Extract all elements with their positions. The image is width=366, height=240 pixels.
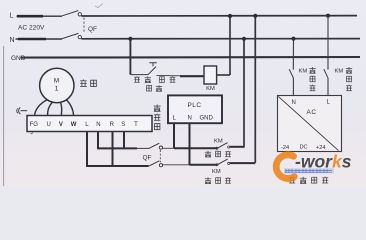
- motor M1 circle: [40, 68, 74, 102]
- svg-text:QF: QF: [88, 26, 97, 33]
- module diagonal: [278, 96, 338, 150]
- wire KM upper feed: [174, 147, 217, 149]
- wire N to KM contact right1: [292, 39, 294, 70]
- wire shield to FG: [21, 110, 28, 112]
- wire PLC N down: [189, 123, 191, 165]
- wire N drop to power switch: [129, 39, 131, 75]
- breaker QF2 pole upper terminal: [159, 146, 162, 149]
- power switch S1 wire right: [157, 74, 182, 76]
- shield symbol: [17, 107, 21, 114]
- node junction N right: [291, 37, 295, 41]
- svg-text:N: N: [292, 100, 296, 106]
- breaker QF link dashed: [83, 18, 85, 34]
- wire KM contact to module L: [327, 78, 329, 96]
- label 开关: [147, 85, 163, 91]
- wire L bus: [81, 15, 357, 17]
- svg-text:KM: KM: [212, 169, 221, 175]
- power switch S1 wire left: [130, 74, 147, 76]
- breaker QF2 pole upper blade: [149, 143, 160, 148]
- svg-text:KM: KM: [206, 86, 215, 92]
- svg-text:W: W: [71, 122, 77, 128]
- motor lead U: [35, 100, 48, 116]
- breaker QF2 link dashed: [159, 150, 161, 162]
- label 电机: [80, 80, 97, 87]
- wire N bus: [81, 38, 360, 40]
- wire KM lower feed: [190, 164, 218, 166]
- label 接触器 mid-upper: [205, 151, 231, 158]
- motor lead FG: [66, 100, 74, 116]
- wire riser coil to L: [229, 16, 231, 75]
- wire KM upper to riser: [230, 146, 244, 148]
- breaker QF pole L blade: [61, 11, 78, 17]
- wire GND bus: [21, 56, 361, 59]
- label 接触器 mid-lower: [205, 177, 231, 184]
- power switch S1 blade: [148, 67, 156, 75]
- svg-text:+24: +24: [316, 145, 326, 151]
- wire L to KM contact right2: [327, 16, 329, 70]
- box PLC: [168, 95, 222, 123]
- breaker QF2 pole lower blade: [149, 161, 160, 166]
- wire PLC L down: [173, 123, 175, 148]
- svg-text:N: N: [10, 37, 15, 44]
- wire QF2 upper to junction: [163, 147, 175, 149]
- breaker QF pole N blade: [61, 33, 78, 39]
- breaker QF pole N terminal: [78, 35, 81, 38]
- breaker QF pole L terminal: [78, 13, 81, 16]
- label 驱动器 vertical: [154, 105, 161, 130]
- svg-text:1: 1: [55, 86, 59, 93]
- svg-text:N: N: [188, 116, 192, 122]
- label 接触器 vertical right1: [309, 67, 315, 91]
- wire driver L down: [87, 132, 149, 167]
- svg-text:N: N: [96, 122, 100, 128]
- node junction N contact riser: [242, 37, 246, 41]
- wire QF2 lower to junction: [163, 164, 191, 166]
- svg-text:KM: KM: [214, 139, 223, 145]
- wire driver N down: [98, 132, 137, 149]
- wire riser N to KM contact upper: [243, 39, 245, 148]
- label 电源接通: [134, 76, 175, 83]
- svg-text:T: T: [134, 122, 138, 128]
- terminal block driver: [27, 116, 152, 132]
- svg-text:PLC: PLC: [188, 102, 202, 109]
- svg-text:R: R: [110, 122, 115, 128]
- label 滤波模块: [289, 177, 328, 184]
- svg-text:FG: FG: [30, 122, 39, 128]
- svg-text:M: M: [54, 78, 59, 85]
- power switch S1 actuator: [149, 63, 156, 66]
- svg-text:KM: KM: [299, 69, 308, 75]
- wire coil to L bus riser: [217, 74, 230, 76]
- contact KM mid-lower blade: [217, 159, 227, 165]
- wire driver R down: [112, 132, 114, 167]
- background paper: [0, 0, 366, 186]
- svg-text:KM: KM: [335, 69, 344, 75]
- svg-text:S: S: [121, 122, 125, 128]
- contact KM right2 blade: [324, 69, 328, 78]
- svg-text:QF: QF: [143, 155, 152, 162]
- wire driver S down: [123, 132, 125, 149]
- contact KM right1 blade: [289, 69, 293, 78]
- wire N input: [16, 38, 63, 40]
- svg-text:U: U: [47, 122, 51, 128]
- svg-text:GND: GND: [200, 116, 214, 122]
- breaker QF2 pole lower terminal: [159, 164, 162, 167]
- wire KM contact to module N: [292, 78, 294, 96]
- wire KM lower to riser: [230, 162, 256, 164]
- stray pen mark top: [95, 4, 103, 8]
- svg-text:AC 220V: AC 220V: [18, 25, 45, 32]
- svg-text:L: L: [10, 13, 14, 20]
- watermark e-works: [276, 152, 352, 179]
- node junction L far right: [326, 14, 330, 18]
- node junction N to switch: [128, 37, 132, 41]
- svg-text:V: V: [59, 122, 63, 128]
- label 接触器 vertical right2: [346, 67, 352, 91]
- wire switch to coil KM: [180, 75, 204, 77]
- node junction L coil riser: [228, 14, 232, 18]
- wire riser L to KM contact lower: [254, 16, 256, 163]
- node junction L contact riser: [253, 14, 257, 18]
- svg-text:DC: DC: [300, 144, 308, 150]
- motor lead W: [61, 102, 62, 116]
- terminal labels FG U V W L N R S T: [30, 122, 138, 128]
- coil KM box: [204, 66, 217, 84]
- svg-text:AC: AC: [307, 109, 317, 116]
- motor lead V: [48, 102, 53, 116]
- scan edge left border: [3, 46, 5, 186]
- wire N-S feed thin: [136, 147, 149, 149]
- tick under FG: [31, 133, 34, 134]
- wire L input: [17, 15, 63, 17]
- svg-text:-24: -24: [281, 145, 289, 151]
- box power module: [278, 96, 342, 152]
- contact KM mid-upper blade: [217, 143, 227, 149]
